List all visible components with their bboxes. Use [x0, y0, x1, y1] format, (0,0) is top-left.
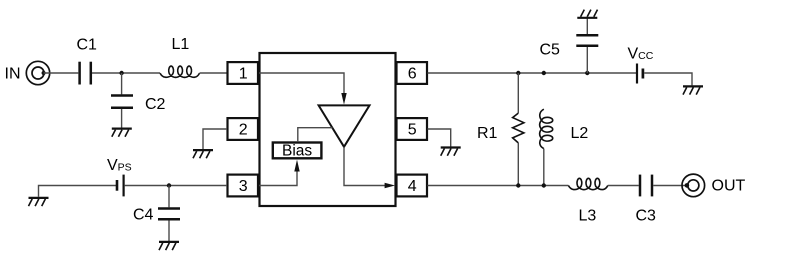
svg-text:2: 2 [239, 122, 248, 139]
svg-text:C2: C2 [145, 96, 166, 113]
ground (pin 5) [441, 148, 461, 156]
arrowhead into Bias bottom [294, 160, 299, 172]
wire L3 to C3 [608, 185, 639, 187]
wire L2 bottom [543, 149, 545, 186]
pin 2 box [228, 118, 259, 140]
IC body U1 [260, 53, 396, 206]
wire pin4 to L3 [428, 185, 569, 187]
Bias box [273, 143, 322, 159]
wire pin1 internal to amp input [259, 73, 344, 97]
resistor R1 [513, 113, 524, 143]
svg-text:Bias: Bias [282, 142, 312, 159]
wire C5 branch up [586, 47, 588, 73]
ground (below C4) [159, 242, 179, 250]
capacitor C3 [640, 175, 652, 197]
arrowhead into pin 4 [385, 183, 395, 189]
connector IN (coax port) [26, 61, 49, 84]
wire R1 top [517, 73, 519, 113]
node C junction dot (R1 top) [516, 71, 520, 75]
source symbol V_PS [117, 175, 124, 197]
pin 5 box [397, 118, 428, 140]
connector OUT (coax port) [682, 174, 705, 197]
svg-text:IN: IN [5, 66, 21, 83]
capacitor C2 [111, 96, 133, 108]
op-amp U1 triangle [319, 105, 370, 146]
ground (above C5, mirrored) [577, 10, 597, 18]
svg-text:C1: C1 [77, 37, 98, 54]
ground (V_CC right) [683, 86, 703, 94]
pin 6 box [397, 62, 428, 84]
wire R1 bottom [517, 143, 519, 186]
svg-text:C4: C4 [133, 207, 154, 224]
wire pin2 to ground [203, 129, 227, 149]
node G junction dot (L2 bottom) [542, 183, 546, 187]
svg-text:VPS: VPS [107, 157, 132, 174]
wire V_PS to pin 3 [125, 185, 227, 187]
svg-text:3: 3 [239, 178, 248, 195]
svg-text:L3: L3 [579, 208, 597, 225]
wire node B down to C4 [168, 186, 170, 208]
wire pin5 to ground [428, 129, 451, 147]
node D junction dot (L2 top) [542, 71, 546, 75]
inductor L3 [568, 178, 607, 189]
ground (V_PS left) [29, 198, 49, 206]
svg-text:R1: R1 [477, 125, 498, 142]
node F junction dot (R1 bottom) [516, 183, 520, 187]
wire pin3 internal to Bias [259, 167, 297, 186]
node B junction dot (C4 tap) [167, 183, 171, 187]
wire C2 to ground [121, 109, 123, 128]
wire C4 to ground [168, 220, 170, 241]
svg-text:L2: L2 [571, 125, 589, 142]
wire C1 to L1 [92, 72, 160, 74]
pin 1 box [228, 62, 259, 84]
wire C5 to top ground [586, 18, 588, 34]
inductor L1 [160, 66, 199, 77]
svg-text:C3: C3 [636, 208, 657, 225]
wire C3 to OUT [653, 185, 686, 187]
svg-text:L1: L1 [172, 36, 190, 53]
capacitor C4 [158, 209, 180, 220]
pin 3 box [228, 175, 259, 197]
svg-text:OUT: OUT [712, 178, 746, 195]
wire IN to C1 [44, 72, 79, 74]
ground (pin 2) [193, 150, 213, 158]
wire pin6 to V_CC [428, 72, 637, 74]
svg-text:C5: C5 [540, 42, 561, 59]
svg-text:VCC: VCC [628, 46, 654, 63]
svg-text:6: 6 [408, 66, 417, 83]
capacitor C5 [576, 35, 598, 46]
wire L1 to pin 1 [200, 72, 228, 74]
svg-text:5: 5 [408, 122, 417, 139]
wire V_CC to right ground [644, 73, 692, 85]
wire Bias output to amp [298, 128, 333, 142]
node A junction dot (C2 tap) [119, 71, 123, 75]
node E junction dot (C5 tap) [585, 71, 589, 75]
svg-text:4: 4 [408, 178, 417, 195]
inductor L2 [540, 109, 553, 148]
arrowhead into amp top [341, 93, 346, 105]
ground (below C2) [112, 129, 132, 137]
capacitor C1 [80, 62, 91, 85]
wire node A down to C2 [121, 73, 123, 94]
wire ground to V_PS [39, 186, 117, 197]
pin 4 box [397, 175, 428, 197]
svg-text:1: 1 [239, 66, 248, 83]
wire amp output to pin 4 [344, 147, 387, 186]
source symbol V_CC [637, 64, 643, 84]
